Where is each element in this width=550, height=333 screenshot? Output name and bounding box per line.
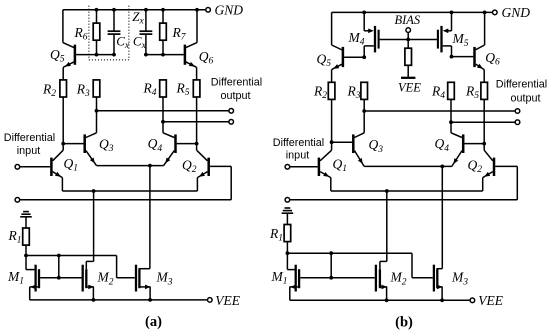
wire R1 bottom lead bbox=[25, 245, 27, 256]
node M1 drain riser top bbox=[57, 254, 61, 258]
svg-text:output: output bbox=[220, 90, 250, 102]
svg-text:VEE: VEE bbox=[398, 81, 421, 95]
wire Q1 Q2 emitter rail b bbox=[331, 190, 483, 192]
wire M2 drain riser b bbox=[386, 191, 388, 261]
node R7 top bbox=[161, 8, 165, 12]
resistor R5 of b bbox=[465, 82, 488, 101]
wire input 1 to Q1 base b bbox=[290, 166, 318, 168]
wire R2 bottom lead b bbox=[331, 99, 333, 142]
svg-text:GND: GND bbox=[502, 5, 531, 20]
node R7 bottom junction bbox=[161, 53, 165, 57]
node R6 bottom junction bbox=[95, 53, 99, 57]
wire bias resistor bottom bbox=[407, 65, 409, 78]
node R5 bottom junction b bbox=[482, 142, 486, 146]
VEE terminal a bbox=[208, 293, 241, 308]
wire R7 bottom lead bbox=[162, 40, 164, 55]
wire input 1 to Q1 base bbox=[20, 166, 51, 168]
wire output line 1 of a bbox=[97, 110, 229, 112]
transistor Q2 of a bbox=[182, 144, 231, 200]
wire mirror gate rail b bbox=[287, 252, 412, 254]
transistor M3 of a bbox=[136, 265, 173, 300]
input terminal 1 of b bbox=[285, 165, 290, 170]
resistor R3 bbox=[76, 80, 100, 99]
node M1 drain junction b bbox=[329, 276, 333, 280]
transistor Q4 of a bbox=[148, 122, 176, 166]
wire R5 bottom lead b bbox=[483, 99, 485, 143]
wire Q3 base b bbox=[332, 141, 353, 143]
wire R3 bottom lead b bbox=[363, 99, 365, 111]
wire R2 bottom lead bbox=[62, 97, 64, 144]
wire R5 bottom lead bbox=[196, 97, 198, 144]
svg-text:Differential: Differential bbox=[4, 132, 55, 144]
wire GND rail of circuit a bbox=[63, 9, 206, 11]
wire M5 gate from bias node bbox=[408, 39, 437, 41]
wire R3 bottom lead bbox=[96, 97, 98, 111]
wire Q4 base b bbox=[464, 143, 484, 145]
capacitor Cx2 bbox=[133, 31, 152, 51]
node M5 drain junction bbox=[450, 55, 454, 59]
transistor M4 of b bbox=[348, 12, 379, 57]
node Cx1 bottom junction bbox=[112, 53, 116, 57]
label differential output b bbox=[496, 79, 547, 105]
wire Q5 emitter to R2 b bbox=[331, 70, 333, 83]
wire Q5 emitter to R2 bbox=[62, 67, 64, 80]
wire Q3 base bbox=[63, 143, 83, 145]
transistor M5 of b bbox=[438, 12, 469, 56]
input terminal 2 of b bbox=[285, 198, 290, 203]
wire R4 bottom lead b bbox=[450, 99, 452, 122]
BIAS terminal bbox=[406, 28, 411, 33]
transistor M2 of a bbox=[83, 265, 114, 300]
wire R7 top lead bbox=[162, 10, 164, 23]
node R3 bottom output junction bbox=[95, 109, 99, 113]
resistor R2 bbox=[42, 80, 67, 99]
wire tail to M3 drain b bbox=[441, 166, 443, 268]
svg-text:output: output bbox=[510, 92, 540, 104]
wire Cx1 bottom lead bbox=[113, 34, 115, 55]
wire VEE rail a bbox=[30, 299, 208, 301]
wire Q3 Q4 emitter line bbox=[97, 165, 164, 167]
node Q1 collector junction bbox=[61, 142, 65, 146]
transistor Q5 of b bbox=[317, 12, 343, 69]
wire Q1 Q2 emitter rail bbox=[62, 190, 197, 192]
node M4 source at rail bbox=[362, 11, 366, 15]
node M3 source at VEE rail bbox=[148, 298, 152, 302]
node Cx1 top bbox=[112, 8, 116, 12]
wire bias node bbox=[407, 32, 409, 48]
resistor R2 of b bbox=[313, 82, 335, 101]
wire M2 drain riser bbox=[93, 191, 95, 261]
resistor R7 bbox=[160, 23, 187, 42]
wire Cx1 top lead bbox=[113, 10, 115, 31]
node M1 drain junction bbox=[57, 276, 61, 280]
transistor M2 of b bbox=[376, 265, 407, 301]
wire input 2 line bbox=[20, 199, 232, 201]
node R6 top bbox=[95, 8, 99, 12]
dotted box Zx bbox=[89, 6, 145, 60]
wire R4 bottom lead bbox=[162, 97, 164, 122]
wire GND rail of circuit b bbox=[332, 11, 493, 13]
resistor R4 bbox=[143, 80, 167, 98]
wire Q5 base row bbox=[76, 54, 114, 56]
VEE terminal b bbox=[470, 293, 504, 308]
wire Q4 base bbox=[177, 143, 197, 145]
node R5 bottom junction bbox=[195, 142, 199, 146]
wire Q6 base row bbox=[146, 54, 184, 56]
node M4 drain junction bbox=[362, 55, 366, 59]
node M3 source at VEE rail b bbox=[440, 298, 444, 302]
wire R6 bottom lead bbox=[96, 40, 98, 55]
wire M4 gate to bias node bbox=[380, 39, 409, 41]
node M2 source at VEE rail b bbox=[385, 298, 389, 302]
svg-text:(a): (a) bbox=[145, 314, 162, 330]
wire R6 top lead bbox=[96, 10, 98, 23]
svg-text:Differential: Differential bbox=[273, 137, 324, 149]
wire output line 2 of a bbox=[163, 121, 229, 123]
node M5 source at rail bbox=[450, 11, 454, 15]
svg-text:VEE: VEE bbox=[215, 293, 240, 308]
wire Cx2 top lead bbox=[145, 10, 147, 31]
node Q3 Q4 emitter junction b bbox=[440, 165, 444, 169]
node Cx2 bottom junction bbox=[144, 53, 148, 57]
ground symbol b bbox=[282, 208, 294, 225]
wire Q6 emitter to R5 bbox=[196, 67, 198, 80]
transistor M1 of b bbox=[271, 253, 332, 300]
node R3 bottom junction b bbox=[362, 109, 366, 113]
node M2 drain junction b bbox=[385, 189, 389, 193]
wire Q6 emitter to R5 b bbox=[483, 70, 485, 83]
wire M1 drain riser b bbox=[330, 253, 332, 278]
node Q6 collector at rail bbox=[195, 8, 199, 12]
resistor R6 bbox=[74, 23, 100, 42]
transistor Q5 of a bbox=[50, 10, 75, 68]
resistor R1 of a bbox=[8, 228, 30, 246]
node bias gate junction bbox=[406, 38, 410, 42]
svg-text:input: input bbox=[17, 145, 40, 157]
wire Q5 base b bbox=[344, 56, 364, 58]
VEE bar symbol bbox=[398, 78, 421, 95]
wire output line 1 of b bbox=[364, 110, 515, 112]
node M2 source at VEE rail bbox=[92, 298, 96, 302]
node R1 gate rail junction b bbox=[286, 251, 290, 255]
wire output line 2 of b bbox=[451, 121, 515, 123]
output terminal 1 of b bbox=[515, 109, 520, 114]
capacitor Cx1 bbox=[108, 31, 130, 51]
svg-text:VEE: VEE bbox=[478, 293, 503, 308]
wire R1 bottom lead b bbox=[286, 241, 288, 253]
svg-text:GND: GND bbox=[215, 3, 244, 18]
node M1 drain riser top b bbox=[329, 251, 333, 255]
output terminal 1 of a bbox=[229, 109, 234, 114]
transistor Q3 of a bbox=[85, 111, 114, 166]
resistor R5 bbox=[176, 80, 200, 98]
svg-text:Differential: Differential bbox=[211, 77, 262, 89]
label differential input a bbox=[4, 132, 55, 157]
wire Cx2 bottom lead bbox=[145, 34, 147, 55]
transistor Q6 of a bbox=[185, 10, 214, 68]
wire mirror gate rail a bbox=[26, 255, 117, 257]
wire M1 drain riser bbox=[58, 256, 60, 278]
svg-text:Differential: Differential bbox=[496, 79, 547, 91]
transistor Q6 of b bbox=[475, 12, 501, 69]
GND terminal a bbox=[206, 3, 243, 18]
label differential output a bbox=[211, 77, 262, 103]
node Q6 collector at rail b bbox=[483, 11, 487, 15]
transistor Q1 of b bbox=[319, 142, 347, 191]
wire Q6 base b bbox=[452, 56, 474, 58]
svg-text:(b): (b) bbox=[395, 315, 413, 331]
transistor Q1 of a bbox=[51, 144, 78, 191]
svg-text:BIAS: BIAS bbox=[395, 13, 421, 27]
ground symbol a bbox=[20, 212, 32, 228]
node R4 bottom junction b bbox=[449, 120, 453, 124]
input terminal 1 of a bbox=[15, 165, 20, 170]
transistor M3 of b bbox=[434, 265, 468, 301]
GND terminal b bbox=[493, 5, 531, 20]
wire Q3 Q4 emitter line b bbox=[364, 165, 452, 167]
transistor Q3 of b bbox=[353, 111, 383, 166]
label differential input b bbox=[273, 137, 324, 162]
transistor M1 of a bbox=[7, 256, 59, 300]
input terminal 2 of a bbox=[15, 198, 20, 203]
node Cx2 top bbox=[144, 8, 148, 12]
resistor R1 of b bbox=[269, 225, 291, 244]
resistor R3 of b bbox=[347, 82, 368, 101]
wire VEE rail b bbox=[290, 299, 470, 301]
output terminal 2 of a bbox=[229, 120, 234, 125]
node Q3 Q4 emitter junction bbox=[148, 164, 152, 168]
node Q1 collector junction b bbox=[330, 140, 334, 144]
wire M1 drain to M2 gate b bbox=[331, 277, 375, 279]
resistor R4 of b bbox=[431, 82, 454, 101]
wire tail to M3 drain bbox=[149, 166, 151, 269]
wire input 2 line b bbox=[290, 199, 518, 201]
node R1 gate rail junction bbox=[24, 254, 28, 258]
node M2 drain junction bbox=[92, 189, 96, 193]
resistor bias bbox=[405, 48, 412, 65]
svg-text:input: input bbox=[286, 150, 309, 162]
wire M1 drain to M2 gate bbox=[59, 277, 82, 279]
output terminal 2 of b bbox=[515, 120, 520, 125]
transistor Q4 of b bbox=[435, 122, 464, 166]
node R4 bottom output junction bbox=[161, 120, 165, 124]
transistor Q2 of b bbox=[468, 144, 518, 200]
